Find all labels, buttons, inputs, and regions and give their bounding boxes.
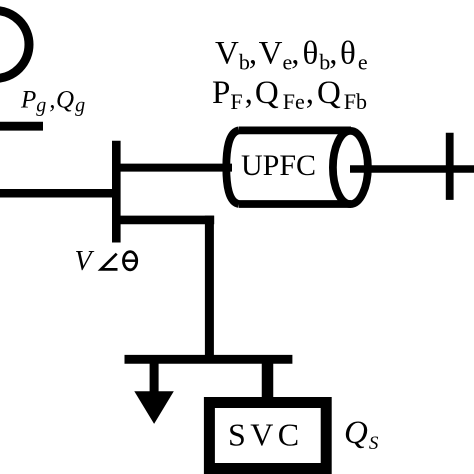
svg-text:QS: QS <box>344 415 379 454</box>
svg-text:V: V <box>75 246 95 277</box>
svg-text:Pg,Qg: Pg,Qg <box>20 87 85 117</box>
wire stub below Pg,Qg <box>0 122 43 131</box>
SVC box <box>209 403 326 469</box>
ground stem <box>150 359 159 392</box>
svg-text:PF,QFe,QFb: PF,QFe,QFb <box>212 75 367 114</box>
wire UPFC to bus 2 <box>350 165 474 173</box>
UPFC cylinder right ellipse <box>333 131 368 204</box>
wire from generator to bus 1 <box>0 189 116 198</box>
bus bar B2 <box>446 133 454 200</box>
generator G circle <box>0 11 29 79</box>
wire bus 1 to UPFC <box>116 164 232 172</box>
wire lower branch from bus 1 <box>112 216 214 225</box>
wire to SVC <box>262 359 274 402</box>
bottom bar node <box>125 355 293 364</box>
ground arrow <box>134 391 174 424</box>
label V angle theta <box>75 246 137 277</box>
svg-text:Vb,Ve,θb,θe: Vb,Ve,θb,θe <box>215 36 368 75</box>
wire vertical drop <box>205 216 214 363</box>
UPFC cylinder body <box>226 130 351 204</box>
svg-text:S V C: S V C <box>228 417 298 453</box>
bus bar B1 <box>112 141 121 243</box>
svg-text:UPFC: UPFC <box>241 149 316 182</box>
